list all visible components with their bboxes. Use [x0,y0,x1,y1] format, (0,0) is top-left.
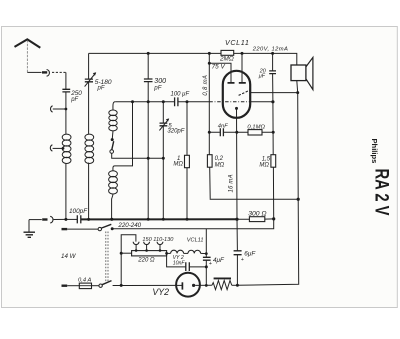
svg-text:4μF: 4μF [213,257,225,264]
svg-text:14 W: 14 W [61,253,77,260]
svg-text:μF: μF [258,74,266,80]
svg-text:0,8 mA: 0,8 mA [203,75,209,96]
svg-text:220V, 12mA: 220V, 12mA [252,47,288,53]
svg-text:300 Ω: 300 Ω [248,211,266,218]
svg-text:4nF: 4nF [218,123,228,129]
svg-text:320pF: 320pF [167,128,184,134]
svg-text:+: + [241,257,244,263]
svg-text:100pF: 100pF [69,208,88,215]
svg-text:0,4 A: 0,4 A [78,278,91,284]
svg-text:220 Ω: 220 Ω [137,258,155,264]
svg-text:10nF: 10nF [173,261,186,267]
svg-text:pF: pF [153,85,162,92]
svg-text:220-240: 220-240 [117,222,141,229]
svg-text:1,5: 1,5 [262,156,271,162]
svg-text:VY2: VY2 [152,287,169,297]
svg-text:2МΩ: 2МΩ [219,56,234,63]
svg-text:МΩ: МΩ [259,162,269,168]
svg-text:VCL11: VCL11 [187,237,204,243]
svg-text:150 110-130: 150 110-130 [142,237,174,243]
svg-text:75 V: 75 V [212,63,226,70]
svg-text:МΩ: МΩ [215,162,225,168]
svg-text:16 mA: 16 mA [229,174,235,192]
svg-text:VCL11: VCL11 [225,38,249,47]
svg-text:МΩ: МΩ [173,161,183,167]
svg-text:6μF: 6μF [244,250,256,257]
svg-text:Philips: Philips [370,139,379,164]
svg-text:0,2: 0,2 [215,156,224,162]
svg-text:+: + [209,261,212,267]
svg-text:pF: pF [70,97,78,103]
svg-text:100 μF: 100 μF [171,92,190,98]
svg-text:0,1МΩ: 0,1МΩ [247,125,265,131]
svg-text:pF: pF [97,86,105,92]
svg-text:RA 2 V: RA 2 V [371,169,392,216]
